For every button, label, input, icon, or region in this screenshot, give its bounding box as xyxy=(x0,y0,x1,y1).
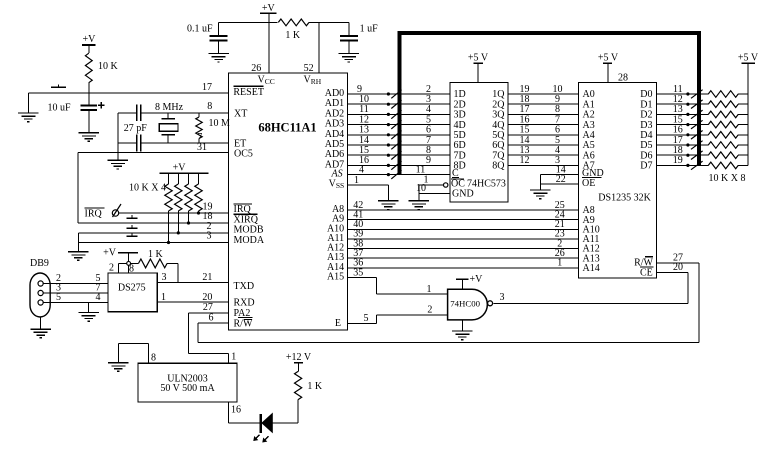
pin 39 label (A11) xyxy=(353,229,363,240)
svg-text:RESET: RESET xyxy=(233,87,264,98)
pin 5 label (DS275) xyxy=(96,273,101,284)
wire AD5 row (chip to latch) xyxy=(348,144,451,146)
bubble NAND output xyxy=(488,301,493,306)
wire Q7 row (latch to RAM A6) xyxy=(508,154,579,156)
junction dot AD4 bus xyxy=(387,133,390,136)
resistor 10K pull-up D6 xyxy=(701,152,748,159)
svg-text:27: 27 xyxy=(203,302,213,313)
svg-text:DS275: DS275 xyxy=(118,283,146,294)
label 8Q xyxy=(492,161,505,172)
junction dot D6 bus xyxy=(686,154,689,157)
label A6 (RAM) xyxy=(583,150,595,161)
junction dot D1 bus xyxy=(686,103,689,106)
svg-text:IRQ: IRQ xyxy=(85,209,103,220)
label A11 xyxy=(327,233,344,244)
pin circle DB9-3 xyxy=(38,290,43,295)
bus entry slash D6 xyxy=(691,151,703,160)
label C (latch) xyxy=(452,168,459,179)
wire D0 row (RAM to bus) xyxy=(657,93,704,95)
capacitor 1uF xyxy=(340,22,378,53)
bus (thick) top horizontal xyxy=(397,31,701,35)
label A5 (RAM) xyxy=(583,140,595,151)
svg-text:1: 1 xyxy=(557,258,562,269)
pin 2 label xyxy=(207,221,212,232)
svg-text:10 K X 4: 10 K X 4 xyxy=(129,182,166,193)
wire MODA net xyxy=(78,242,228,244)
junction dot MODB pull-up xyxy=(177,231,180,234)
wire E to NAND input 2 xyxy=(348,315,448,324)
label A15 xyxy=(327,272,344,283)
label A4 (RAM) xyxy=(583,130,595,141)
junction dot D3 bus xyxy=(686,123,689,126)
svg-text:68HC11A1: 68HC11A1 xyxy=(258,120,316,134)
ground (0.1uF) xyxy=(208,53,229,62)
wire DS275 pin 8 xyxy=(128,253,130,273)
svg-text:+V: +V xyxy=(103,248,117,259)
label 68HC11A1 xyxy=(258,120,316,134)
label Vss xyxy=(329,179,345,191)
label D5 (RAM) xyxy=(640,140,652,151)
svg-text:26: 26 xyxy=(251,63,261,74)
ground (ULN pin 8) xyxy=(108,363,128,372)
pin 4 label (AS) xyxy=(359,164,364,175)
label A11 (RAM) xyxy=(583,234,600,245)
bus entry slash AD4 xyxy=(391,131,401,140)
pin 5 label (latch 4D) xyxy=(426,114,431,125)
resistor 10K (to XIRQ) xyxy=(185,173,192,223)
bus entry slash D2 xyxy=(691,110,703,119)
junction dot IRQ pull-up xyxy=(197,211,200,214)
label D2 (RAM) xyxy=(640,110,652,121)
wire D2 row (RAM to bus) xyxy=(657,113,704,115)
wire D1 row (RAM to bus) xyxy=(657,103,704,105)
junction dot D0 bus xyxy=(686,92,689,95)
resistor 1K (LED) xyxy=(295,371,323,423)
pin 2 label (latch 1D) xyxy=(426,84,431,95)
svg-text:10: 10 xyxy=(416,183,426,194)
pin 1 label (DS275) xyxy=(161,292,166,303)
bus (thick) left vertical xyxy=(398,31,402,175)
power +12V xyxy=(286,352,312,371)
wire ULN pin 8 to ground xyxy=(118,344,148,364)
label 8D xyxy=(454,161,466,172)
wire D3 row (RAM to bus) xyxy=(657,124,704,126)
wire stem to oscillator ground xyxy=(117,153,119,161)
wire Vcc vertical from +V to pin 26 xyxy=(268,13,270,73)
wire AD2 row (chip to latch) xyxy=(348,113,451,115)
svg-text:TXD: TXD xyxy=(234,281,255,292)
pin 19 label (latch 1Q) xyxy=(520,84,530,95)
label 1D xyxy=(454,89,466,100)
IC U5 DS275 box xyxy=(108,273,157,312)
label AD1 xyxy=(325,98,344,109)
capacitor 0.1uF xyxy=(187,22,228,53)
pin 28 label xyxy=(618,73,628,84)
svg-text:8: 8 xyxy=(151,353,156,364)
connector J1 DB9 xyxy=(30,258,50,317)
svg-text:A15: A15 xyxy=(327,272,344,283)
wire AD3 row (chip to latch) xyxy=(348,124,451,126)
label AD7 xyxy=(325,159,344,170)
svg-text:35: 35 xyxy=(353,267,363,278)
bus entry slash AD0 xyxy=(391,90,401,99)
pin 8 label (latch 7D) xyxy=(426,145,431,156)
label A10 xyxy=(327,223,344,234)
pin 6 label (RAM A4) xyxy=(555,125,560,136)
label 7D xyxy=(454,150,466,161)
pin 6 label (R/W) xyxy=(209,312,214,323)
label A9 (RAM) xyxy=(583,215,595,226)
svg-text:1 K: 1 K xyxy=(148,249,164,260)
svg-text:8 MHz: 8 MHz xyxy=(155,102,184,113)
bus (thick) right vertical xyxy=(697,31,701,166)
svg-text:VRH: VRH xyxy=(304,74,322,86)
junction dot AS bus xyxy=(387,173,390,176)
pushbutton (XIRQ-MODB) xyxy=(127,225,138,228)
pin 1 label (NAND in1) xyxy=(427,284,432,295)
svg-text:RXD: RXD xyxy=(234,298,255,309)
capacitor 27pF (bottom) xyxy=(137,135,141,152)
pin 21 label (TXD) xyxy=(202,272,212,283)
wire latch GND pin 10 xyxy=(419,192,450,194)
junction dot D4 bus xyxy=(686,133,689,136)
ground (latch) xyxy=(409,201,430,210)
pin 3 label (DB9) xyxy=(56,283,61,294)
switch symbol (IRQ input) xyxy=(112,204,121,217)
pin 38 label (A12) xyxy=(353,238,363,249)
svg-text:22: 22 xyxy=(556,174,566,185)
pin 18 label (RAM D6) xyxy=(673,145,683,156)
wire DB9 shell to ground xyxy=(40,317,42,329)
wire NAND ground stem xyxy=(461,320,463,331)
resistor 10K pull-up D1 xyxy=(701,101,748,108)
pin 15 label (AD6) xyxy=(359,145,369,156)
ground (Vss) xyxy=(378,201,399,210)
resistor R 10K (reset pull-up) xyxy=(85,45,118,93)
wire RAM CE to NAND output xyxy=(494,273,689,304)
power +5V (latch) xyxy=(468,53,489,83)
label 6Q xyxy=(492,140,505,151)
wire +5V rail (pull-ups) xyxy=(747,63,749,165)
label D6 (RAM) xyxy=(640,150,652,161)
label A3 (RAM) xyxy=(583,120,595,131)
label GND (RAM) xyxy=(582,168,604,179)
junction dot D2 bus xyxy=(686,113,689,116)
label DS1235 32K xyxy=(598,192,651,203)
svg-text:21: 21 xyxy=(202,272,212,283)
pin 9 label (RAM A1) xyxy=(555,94,560,105)
junction dot AD7 bus xyxy=(387,164,390,167)
label AD5 xyxy=(325,139,344,150)
pin 21 label (RAM A10) xyxy=(555,219,565,230)
power +V (10KX4 pull-ups) xyxy=(160,162,209,173)
wire A11 row (chip to RAM) xyxy=(348,238,579,240)
resistor 10K pull-up D4 xyxy=(701,132,748,139)
svg-text:+V: +V xyxy=(82,34,96,45)
wire DB9-5 to DS275-4 xyxy=(43,302,108,304)
wire Q4 row (latch to RAM A3) xyxy=(508,124,579,126)
junction dot MODA pull-up xyxy=(167,241,170,244)
pin 1 label (Vss) xyxy=(354,175,359,186)
label RESET (pin 17) xyxy=(233,86,264,98)
resistor 10K pull-up D5 xyxy=(701,142,748,149)
label AD2 xyxy=(325,108,344,119)
wire Q2 row (latch to RAM A1) xyxy=(508,103,579,105)
wire XT rail xyxy=(118,112,228,114)
svg-text:4: 4 xyxy=(96,292,101,303)
label ET xyxy=(234,139,246,150)
label AD0 xyxy=(325,88,344,99)
label A14 xyxy=(327,262,344,273)
wire TXD net xyxy=(157,281,228,283)
wire top rail left (to 0.1uF) xyxy=(219,21,278,23)
svg-text:52: 52 xyxy=(304,63,314,74)
ground (reset switch) xyxy=(18,113,39,122)
capacitor 10uF (electrolytic) xyxy=(47,93,104,133)
ground (oscillator) xyxy=(108,160,128,169)
ground (1uF) xyxy=(339,53,360,62)
svg-text:VSS: VSS xyxy=(329,179,345,191)
wire Q3 row (latch to RAM A2) xyxy=(508,113,579,115)
label 27 pF xyxy=(124,123,148,134)
junction dot AD3 bus xyxy=(387,123,390,126)
label OC5 xyxy=(234,148,253,159)
pin 4 label (latch 3D) xyxy=(426,104,431,115)
pin 20 label (RXD) xyxy=(202,292,212,303)
power +V (NAND) xyxy=(456,274,483,289)
svg-text:20: 20 xyxy=(673,262,683,273)
bus entry slash AS xyxy=(391,170,401,179)
resistor 1K (Vcc-VRH) xyxy=(278,19,309,41)
svg-text:1: 1 xyxy=(354,175,359,186)
wire A13 row (chip to RAM) xyxy=(348,257,579,259)
svg-text:R/W: R/W xyxy=(234,318,253,329)
pin 9 label (AD0) xyxy=(357,84,362,95)
junction dot AD5 bus xyxy=(387,143,390,146)
label XIRQ (chip) xyxy=(234,214,259,225)
label 3D xyxy=(454,110,466,121)
resistor 10K pull-up D3 xyxy=(701,121,748,128)
bus entry slash D1 xyxy=(691,100,703,109)
label R/W (chip) xyxy=(234,318,253,329)
wire VRH vertical to pin 52 xyxy=(318,22,320,73)
label D4 (RAM) xyxy=(640,130,652,141)
bus entry slash D0 xyxy=(691,90,703,99)
pushbutton (reset switch) xyxy=(51,85,66,88)
wire MODB/MODA to ground xyxy=(77,233,79,252)
pin 1 label (latch OC) xyxy=(424,175,429,186)
label 6D xyxy=(454,140,466,151)
svg-text:6: 6 xyxy=(209,312,214,323)
svg-text:1 uF: 1 uF xyxy=(360,24,379,35)
wire D7 row (RAM to bus) xyxy=(657,164,704,166)
bus entry slash AD5 xyxy=(391,141,401,150)
label AD4 xyxy=(325,129,344,140)
bus entry slash D7 xyxy=(691,161,703,170)
pin 26 label (RAM A13) xyxy=(555,248,565,259)
pin 27 label (PA2) xyxy=(203,302,213,313)
wire OC net xyxy=(419,185,444,201)
pin 35 label (A15) xyxy=(353,267,363,278)
pin 8 label (RAM A2) xyxy=(555,104,560,115)
label A0 (RAM) xyxy=(583,89,595,100)
svg-text:8: 8 xyxy=(207,101,212,112)
pin 10 label (latch GND) xyxy=(416,183,426,194)
pushbutton (MODB-MODA) xyxy=(127,233,138,236)
wire RAM GND pin 14 xyxy=(540,174,578,176)
power +5V (RAM pin 28) xyxy=(598,53,619,83)
label OC 74HC573 xyxy=(451,179,506,190)
bus entry slash D3 xyxy=(691,120,703,129)
label 5D xyxy=(454,130,466,141)
pin 7 label (RAM A3) xyxy=(555,114,560,125)
pin 11 label (AD2) xyxy=(359,104,369,115)
resistor 10K pull-up D7 xyxy=(701,162,748,169)
label A8 xyxy=(332,204,344,215)
svg-text:+V: +V xyxy=(470,274,484,285)
svg-text:28: 28 xyxy=(618,73,628,84)
svg-text:DS1235 32K: DS1235 32K xyxy=(598,192,651,203)
bubble DS275 pin 8 xyxy=(127,262,131,266)
capacitor 27pF (top) xyxy=(137,104,141,121)
resistor 10K (to MODA) xyxy=(165,173,172,242)
label A9 xyxy=(332,214,344,225)
label D1 (RAM) xyxy=(640,99,652,110)
svg-text:1 K: 1 K xyxy=(307,381,323,392)
pin 3 label (latch 2D) xyxy=(426,94,431,105)
wire RESET net xyxy=(28,92,228,94)
pin 25 label (RAM A8) xyxy=(555,200,565,211)
pin 5 label (DB9) xyxy=(56,292,61,303)
wire chip R/W to long net xyxy=(198,323,228,343)
pin 3 label (NAND out) xyxy=(500,292,505,303)
label AD6 xyxy=(325,149,344,160)
label 7Q xyxy=(492,150,505,161)
label IRQ (input) xyxy=(85,208,105,220)
pin 19 label xyxy=(203,202,213,213)
wire PA2 to ULN pin 1 xyxy=(189,313,229,363)
power +5V (pull-ups) xyxy=(738,53,759,64)
svg-text:8: 8 xyxy=(129,263,134,274)
pin 16 label (AD7) xyxy=(359,155,369,166)
pin 9 label (latch 8D) xyxy=(426,155,431,166)
pin 16 label (RAM D4) xyxy=(673,125,683,136)
pin 10 label (AD1) xyxy=(359,94,369,105)
pin 22 label (RAM OE) xyxy=(556,174,566,185)
wire DB9-2 to DS275-5 xyxy=(43,283,108,285)
wire RXD net xyxy=(157,301,228,303)
svg-text:1: 1 xyxy=(231,351,236,362)
svg-text:27 pF: 27 pF xyxy=(124,123,148,134)
svg-text:A14: A14 xyxy=(583,263,600,274)
label 4Q xyxy=(492,120,505,131)
wire A15 to NAND input 1 xyxy=(348,278,448,295)
svg-text:+5 V: +5 V xyxy=(468,53,489,64)
svg-text:D7: D7 xyxy=(640,161,652,172)
pin 13 label (AD4) xyxy=(359,125,369,136)
bus entry slash AD2 xyxy=(391,110,401,119)
ground (mode pins) xyxy=(68,252,89,261)
svg-text:XT: XT xyxy=(234,109,247,120)
pin 14 label (latch 6Q) xyxy=(520,135,530,146)
wire Q5 row (latch to RAM A4) xyxy=(508,134,579,136)
wire D4 row (RAM to bus) xyxy=(657,134,704,136)
bus entry slash D4 xyxy=(691,131,703,140)
ground (NAND) xyxy=(452,331,473,340)
label A12 (RAM) xyxy=(583,244,600,255)
svg-text:12: 12 xyxy=(520,155,530,166)
wire to left ground xyxy=(27,93,29,113)
wire LED to 1K xyxy=(272,422,298,424)
label D3 (RAM) xyxy=(640,120,652,131)
svg-text:3: 3 xyxy=(500,292,505,303)
pin 5 label (RAM A5) xyxy=(555,135,560,146)
wire ULN pin 16 to LED xyxy=(228,402,259,423)
label D7 (RAM) xyxy=(640,161,652,172)
junction dot AD1 bus xyxy=(387,103,390,106)
pin 6 label (latch 5D) xyxy=(426,125,431,136)
pin 13 label (RAM D2) xyxy=(673,104,683,115)
wire long R/W net (bottom) xyxy=(198,342,699,344)
wire RAM GND/OE to ground xyxy=(539,175,541,190)
svg-text:1: 1 xyxy=(161,292,166,303)
pin 20 label (RAM CE) xyxy=(673,262,683,273)
label A14 (RAM) xyxy=(583,263,600,274)
pin 36 label (A14) xyxy=(353,258,363,269)
pin 3 label (DS275) xyxy=(162,272,167,283)
pin circle DB9-5 xyxy=(38,300,43,305)
wire D5 row (RAM to bus) xyxy=(657,144,704,146)
label D0 (RAM) xyxy=(640,89,652,100)
pin 17 label (latch 3Q) xyxy=(520,104,530,115)
label A8 (RAM) xyxy=(583,205,595,216)
label A2 (RAM) xyxy=(583,110,595,121)
pin 8 label xyxy=(207,101,212,112)
ground (RS232 common) xyxy=(78,313,99,322)
pin 42 label (A8) xyxy=(353,200,363,211)
pin 14 label (RAM GND) xyxy=(556,164,566,175)
svg-text:DB9: DB9 xyxy=(30,258,49,269)
label MODA xyxy=(234,235,265,246)
svg-text:OC5: OC5 xyxy=(234,148,253,159)
svg-text:2: 2 xyxy=(427,305,432,316)
wire MODB net xyxy=(78,232,228,234)
pushbutton (IRQ-XIRQ) xyxy=(127,215,138,218)
wire A8 row (chip to RAM) xyxy=(348,209,579,211)
wire Q1 row (latch to RAM A0) xyxy=(508,93,579,95)
bus entry slash AD1 xyxy=(391,100,401,109)
svg-text:19: 19 xyxy=(673,155,683,166)
svg-text:9: 9 xyxy=(426,155,431,166)
pin 31 label xyxy=(197,142,207,153)
wire AD0 row (chip to latch) xyxy=(348,93,451,95)
wire Q8 row (latch to RAM A7) xyxy=(508,164,579,166)
IC U2 74HC573 box xyxy=(450,83,508,203)
pin 26 label xyxy=(251,63,261,74)
junction dot AD2 bus xyxy=(387,113,390,116)
label 2D xyxy=(454,99,466,110)
resistor 1K (DS275) xyxy=(139,249,178,283)
wire D6 row (RAM to bus) xyxy=(657,154,704,156)
wire DS275 pin4 ground stub xyxy=(88,303,90,313)
junction dot D7 bus xyxy=(686,164,689,167)
svg-text:10 M: 10 M xyxy=(209,118,231,129)
label 1Q xyxy=(492,89,505,100)
power +V supply (top, Vcc/VRH rail) xyxy=(260,3,277,14)
wire OC5 net xyxy=(78,152,229,154)
svg-text:17: 17 xyxy=(202,82,212,93)
pin 11 label (RAM D0) xyxy=(673,84,683,95)
